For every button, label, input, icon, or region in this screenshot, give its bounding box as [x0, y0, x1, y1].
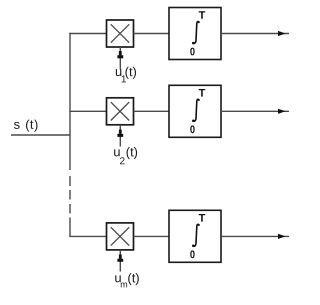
integrator U3 upper limit T [199, 214, 205, 222]
wire vertical bus dashed middle [69, 176, 71, 214]
integrator U1 integral sign [192, 21, 200, 44]
wire vertical bus solid upper [69, 33, 71, 170]
integrator U3 integral sign [192, 224, 200, 247]
wire um arrow line [119, 250, 121, 272]
arrowhead u1 up [117, 51, 123, 58]
wire u2 arrow line [119, 125, 121, 147]
arrowhead output 1 [278, 31, 286, 36]
integrator U2 integral sign [192, 99, 200, 122]
wire multiplier 1 to integrator 1 [134, 33, 170, 35]
wire integrator 3 output [221, 235, 289, 237]
node s(t) input label [14, 120, 38, 132]
wire vertical bus solid lower [69, 218, 71, 238]
integrator U3 box [169, 210, 221, 262]
wire u1 arrow line [119, 47, 121, 70]
label um(t) [115, 273, 139, 287]
label u1(t) [116, 67, 136, 83]
integrator U1 lower limit 0 [190, 48, 194, 56]
wire input s(t) horizontal [11, 134, 70, 136]
multiplier M3 X symbol [111, 227, 129, 245]
arrowhead output 2 [278, 109, 286, 114]
integrator U3 lower limit 0 [190, 250, 194, 258]
integrator U2 lower limit 0 [190, 125, 194, 133]
wire multiplier 2 to integrator 2 [134, 110, 170, 112]
wire branch 3 to multiplier [69, 235, 106, 237]
wire integrator 2 output [221, 110, 289, 112]
label u2(t) [114, 147, 137, 164]
integrator U1 upper limit T [199, 11, 205, 19]
multiplier M2 X symbol [111, 102, 129, 120]
multiplier M2 box [107, 98, 134, 125]
multiplier M1 X symbol [111, 24, 129, 42]
multiplier M1 box [107, 20, 134, 47]
integrator U2 upper limit T [199, 89, 205, 97]
wire branch 2 to multiplier [69, 110, 106, 112]
arrowhead output 3 [278, 234, 286, 239]
multiplier M3 box [107, 223, 134, 250]
wire multiplier 3 to integrator 3 [134, 235, 170, 237]
integrator U2 box [169, 85, 221, 137]
integrator U1 box [169, 8, 221, 60]
arrowhead um up [117, 255, 123, 262]
wire branch 1 to multiplier [69, 33, 106, 35]
wire integrator 1 output [221, 33, 289, 35]
arrowhead u2 up [117, 130, 123, 137]
